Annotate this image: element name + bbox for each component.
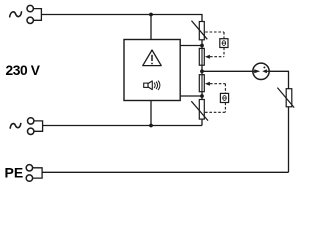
AC source symbol (sine) for N input	[10, 124, 21, 129]
wire box bottom to N	[150, 101, 152, 126]
wire varistor R1 to disconnector F1	[201, 40, 203, 49]
warning triangle indicator	[143, 50, 161, 66]
node N-box junction	[149, 124, 153, 128]
temperature sensor box T1	[220, 39, 228, 48]
terminal L lower circle	[27, 17, 33, 23]
terminal PE upper circle	[26, 165, 32, 171]
wire GDT to varistor R3	[269, 71, 288, 88]
wire L top	[41, 15, 202, 22]
node C junction	[200, 94, 204, 98]
wire varistor R3 down to PE	[288, 107, 290, 173]
terminal PE lower circle	[26, 175, 32, 181]
gas discharge tube G1	[253, 63, 269, 79]
wire varistor R2 to N wire	[201, 119, 203, 125]
terminal L upper circle	[27, 5, 33, 11]
monitoring module U1	[124, 40, 180, 101]
actuator arrow on F1	[205, 55, 210, 59]
svg-text:230 V: 230 V	[6, 63, 41, 78]
varistor R1	[192, 21, 208, 40]
node A junction	[200, 44, 204, 48]
terminal L stubs and bar	[33, 9, 41, 21]
wire node B to gas discharge tube	[202, 70, 253, 72]
terminal PE stubs and bar	[33, 168, 43, 178]
thermal disconnector F2	[199, 75, 204, 92]
varistor R3	[277, 88, 294, 108]
wire PE	[42, 171, 288, 173]
thermal linkage of R2 (dashed)	[205, 84, 225, 113]
svg-text:PE: PE	[5, 164, 24, 180]
node L-box junction	[149, 13, 153, 17]
wire node C to monitoring box	[180, 95, 202, 97]
terminal N upper circle	[28, 118, 34, 124]
terminal N lower circle	[28, 128, 34, 134]
node B junction	[200, 69, 204, 73]
wire N	[43, 125, 202, 127]
acoustic alarm (buzzer) indicator	[144, 81, 160, 90]
thermal linkage of R1 (dashed)	[205, 32, 224, 57]
wire into box top	[150, 15, 152, 40]
wire F2 to varistor R2	[201, 92, 203, 100]
wire F1 to F2	[201, 65, 203, 75]
varistor R2	[191, 100, 208, 121]
actuator arrow on F2	[205, 82, 210, 86]
wire node A to monitoring box	[180, 45, 202, 47]
terminal N stubs and bar	[34, 121, 43, 131]
thermal disconnector F1	[199, 48, 204, 65]
temperature sensor box T2	[220, 93, 228, 102]
AC source symbol (sine) for L input	[10, 12, 22, 17]
